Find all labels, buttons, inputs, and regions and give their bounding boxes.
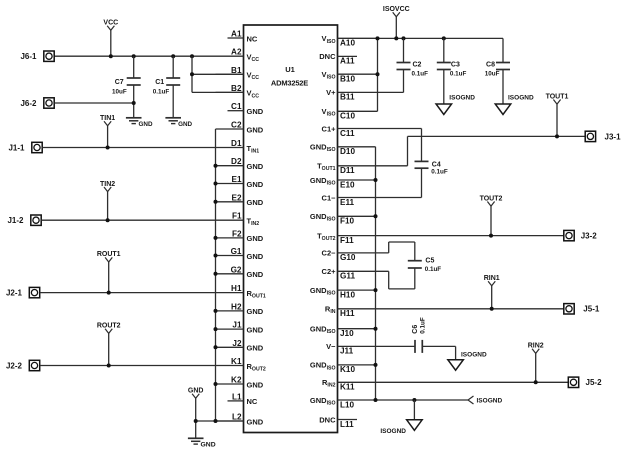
svg-text:J6-2: J6-2 xyxy=(20,99,37,108)
connector pad J5-1 xyxy=(564,304,600,314)
pin D1 (TIN1) left stub + labels xyxy=(231,139,259,154)
wire drop to ISOGND triangle xyxy=(413,400,415,420)
pin A10 (VISO) right stub + labels xyxy=(322,34,378,48)
svg-text:C1−: C1− xyxy=(322,193,337,202)
svg-text:ROUT1: ROUT1 xyxy=(97,251,121,258)
svg-text:A10: A10 xyxy=(340,39,355,48)
svg-text:C10: C10 xyxy=(340,112,355,121)
junction GNDISO bus at row H10 xyxy=(374,288,378,292)
svg-text:J11: J11 xyxy=(340,347,354,356)
pin K10 (GNDISO) right stub + labels xyxy=(310,361,376,375)
ground ISOGND under C6 xyxy=(448,352,487,371)
svg-text:GND: GND xyxy=(247,107,264,116)
junction GNDISO bus at row E10 xyxy=(374,178,378,182)
svg-text:E2: E2 xyxy=(231,193,241,202)
svg-text:H10: H10 xyxy=(340,290,355,299)
node ISOGND off-page connector xyxy=(468,396,502,405)
svg-text:RIN1: RIN1 xyxy=(484,275,500,282)
junction RIN2 at wire xyxy=(534,380,538,384)
svg-text:B1: B1 xyxy=(231,66,242,75)
svg-text:B2: B2 xyxy=(231,84,242,93)
svg-text:V+: V+ xyxy=(326,88,336,97)
svg-text:ISOGND: ISOGND xyxy=(461,352,487,359)
svg-text:ISOGND: ISOGND xyxy=(380,428,406,435)
junction GNDISO bus at row K10 xyxy=(374,363,378,367)
svg-text:GND: GND xyxy=(188,388,204,395)
pin E2 (GND) left stub + labels xyxy=(216,193,264,207)
connector pad J5-2 xyxy=(568,377,602,387)
svg-text:D11: D11 xyxy=(340,166,355,175)
pin C10 (VISO) right stub + labels xyxy=(322,107,378,121)
svg-text:D1: D1 xyxy=(231,139,242,148)
pin D11 (TOUT1) right stub + labels xyxy=(317,162,355,176)
wire VISO vertical A10-B10-C10 xyxy=(377,38,379,111)
pin J11 (V&#8722;) right stub + labels xyxy=(326,342,354,356)
svg-text:C11: C11 xyxy=(340,129,355,138)
ground ISOGND under C8 xyxy=(495,94,534,114)
svg-text:C8: C8 xyxy=(486,62,495,69)
svg-text:E10: E10 xyxy=(340,180,355,189)
wire VCC rail from J6-1 to pin A2 xyxy=(54,55,243,57)
wire V- (J11) to C6 xyxy=(338,345,416,347)
pin F1 (TIN2) left stub + labels xyxy=(232,212,259,227)
svg-text:DNC: DNC xyxy=(319,415,336,424)
svg-text:G1: G1 xyxy=(231,247,242,256)
IC U1 ADM3252E body xyxy=(244,25,338,433)
junction VISO vertical at B10 xyxy=(376,72,380,76)
svg-text:ADM3252E: ADM3252E xyxy=(271,79,308,88)
junction GND bus at row G1 xyxy=(214,254,218,258)
capacitor C8 xyxy=(485,38,510,104)
connector pad J6-1 xyxy=(20,51,54,61)
svg-text:H2: H2 xyxy=(231,302,242,311)
svg-text:0.1uF: 0.1uF xyxy=(431,169,448,176)
svg-text:0.1uF: 0.1uF xyxy=(412,71,429,78)
power flag TOUT1 xyxy=(546,93,569,136)
junction rail at C2 xyxy=(402,36,406,40)
pin H11 (RIN) right stub + labels xyxy=(325,305,355,319)
ground ISOGND under C3 xyxy=(436,94,475,114)
capacitor C1 xyxy=(153,56,180,118)
power flag RIN2 xyxy=(528,343,544,383)
pin H10 (GNDISO) right stub + labels xyxy=(310,286,376,300)
pin L2 (GND) left stub + labels xyxy=(216,413,264,427)
svg-text:GND: GND xyxy=(247,307,264,316)
svg-text:G2: G2 xyxy=(231,265,242,274)
svg-text:A2: A2 xyxy=(231,48,242,57)
svg-text:GND: GND xyxy=(247,325,264,334)
svg-text:NC: NC xyxy=(247,397,258,406)
pin J10 (GNDISO) right stub + labels xyxy=(310,325,376,339)
wire C2 bottom to pin B11 (V+) xyxy=(338,91,404,93)
svg-text:DNC: DNC xyxy=(319,52,336,61)
svg-text:J5-1: J5-1 xyxy=(583,305,600,314)
wire J2-2 to chip xyxy=(40,365,244,367)
pin D2 (GND) left stub + labels xyxy=(216,157,264,171)
junction GND bus at row K2 xyxy=(214,382,218,386)
svg-text:0.1uF: 0.1uF xyxy=(153,89,170,96)
svg-text:J10: J10 xyxy=(340,329,354,338)
svg-text:J1-1: J1-1 xyxy=(8,144,25,153)
svg-text:GND: GND xyxy=(247,234,264,243)
svg-text:G11: G11 xyxy=(340,272,355,281)
svg-text:C2: C2 xyxy=(231,121,242,130)
pin J2 (GND) left stub + labels xyxy=(216,339,264,353)
svg-text:D10: D10 xyxy=(340,147,355,156)
svg-text:C1: C1 xyxy=(231,102,242,111)
junction ROUT1 at wire xyxy=(107,291,111,295)
power flag TIN2 xyxy=(100,181,115,220)
junction GND bus at row D2 xyxy=(214,164,218,168)
svg-text:C2: C2 xyxy=(413,62,422,69)
junction L10 row at triangle drop xyxy=(412,398,416,402)
pin G2 (GND) left stub + labels xyxy=(216,265,264,279)
svg-text:TIN2: TIN2 xyxy=(100,181,115,188)
ground GND earth symbol bottom xyxy=(188,438,216,448)
junction TOUT1 at wire xyxy=(555,134,559,138)
svg-text:0.1uF: 0.1uF xyxy=(450,71,467,78)
wire C1+ (C11) to C4 top xyxy=(338,129,422,162)
junction GND bus at row E1 xyxy=(214,182,218,186)
connector pad J1-1 xyxy=(8,142,42,152)
connector pad J1-2 xyxy=(7,215,41,225)
svg-text:J3-1: J3-1 xyxy=(605,132,622,141)
junction RIN1 at wire xyxy=(490,307,494,311)
power flag VCC xyxy=(103,20,118,57)
pin F11 (TOUT2) right stub + labels xyxy=(317,231,354,245)
junction GND bus at row H2 xyxy=(214,309,218,313)
junction GND bus at row E2 xyxy=(214,200,218,204)
svg-text:C1: C1 xyxy=(155,79,164,86)
svg-text:J3-2: J3-2 xyxy=(581,232,598,241)
svg-text:L2: L2 xyxy=(232,413,242,422)
svg-text:V−: V− xyxy=(326,342,336,351)
ground ISOGND bottom triangle xyxy=(380,420,422,435)
junction rail at ISOVCC flag xyxy=(394,36,398,40)
junction ROUT2 at wire xyxy=(107,364,111,368)
svg-text:J2-2: J2-2 xyxy=(6,362,23,371)
junction GND bus at row J1 xyxy=(214,327,218,331)
wire GNDISO bus (right side) xyxy=(375,147,377,400)
capacitor C4 xyxy=(415,161,448,175)
junction TIN2 at wire xyxy=(106,218,110,222)
pin J1 (GND) left stub + labels xyxy=(216,321,264,335)
power flag ISOVCC xyxy=(383,6,410,38)
svg-text:GND: GND xyxy=(247,125,264,134)
pin A2 (VCC) left stub + labels xyxy=(231,48,259,63)
junction rail at VISO vertical xyxy=(376,36,380,40)
svg-text:C1+: C1+ xyxy=(322,124,337,133)
wire TOUT1 (D11) to J3-1 xyxy=(338,136,586,165)
svg-text:K2: K2 xyxy=(231,376,242,385)
svg-text:A11: A11 xyxy=(340,57,355,66)
wire J2-1 to chip xyxy=(40,292,244,294)
ground GND under C7 xyxy=(126,118,153,128)
svg-text:ISOVCC: ISOVCC xyxy=(383,6,410,13)
svg-text:GND: GND xyxy=(247,252,264,261)
svg-text:RIN2: RIN2 xyxy=(528,343,544,350)
svg-text:K11: K11 xyxy=(340,383,355,392)
svg-text:GND: GND xyxy=(178,121,192,128)
capacitor C7 xyxy=(112,56,141,118)
junction VCC rail at C1 xyxy=(171,54,175,58)
connector pad J6-2 xyxy=(20,98,54,108)
junction GND bus at row J2 xyxy=(214,345,218,349)
svg-text:E11: E11 xyxy=(340,198,355,207)
svg-text:K10: K10 xyxy=(340,365,355,374)
svg-text:NC: NC xyxy=(247,34,258,43)
power flag GND (bottom left) xyxy=(188,388,204,439)
svg-text:E1: E1 xyxy=(231,175,241,184)
svg-text:ISOGND: ISOGND xyxy=(449,94,475,101)
pin A11 (DNC) right stub + labels xyxy=(319,52,357,65)
svg-text:GND: GND xyxy=(139,121,153,128)
capacitor C2 xyxy=(397,38,429,92)
svg-text:G10: G10 xyxy=(340,253,356,262)
wire J1-1 to chip xyxy=(42,147,243,149)
wire J6-2 to C7 ground lead xyxy=(54,102,134,104)
svg-text:C6: C6 xyxy=(412,325,419,334)
svg-text:TOUT1: TOUT1 xyxy=(546,93,569,100)
connector pad J2-1 xyxy=(6,287,40,297)
svg-text:B11: B11 xyxy=(340,93,355,102)
svg-text:C2−: C2− xyxy=(322,249,337,258)
pin G1 (GND) left stub + labels xyxy=(216,247,264,261)
capacitor C6 xyxy=(412,317,427,353)
pin H2 (GND) left stub + labels xyxy=(216,302,264,316)
pin D10 (GNDISO) right stub + labels xyxy=(310,143,376,157)
wire TOUT2 (F11) to J3-2 xyxy=(338,235,565,237)
pin B10 (VISO) right stub + labels xyxy=(322,70,378,84)
pin C11 (C1+) right stub + labels xyxy=(322,124,355,138)
pin L1 (NC) left stub + labels xyxy=(228,392,258,406)
junction J6-2 wire at C7 lead xyxy=(132,101,136,105)
svg-text:J2: J2 xyxy=(232,339,242,348)
svg-text:L10: L10 xyxy=(340,400,355,409)
junction rail at C3 xyxy=(442,36,446,40)
pin L11 (DNC) right stub + labels xyxy=(319,415,357,429)
connector pad J3-1 xyxy=(585,131,621,141)
svg-text:J2-1: J2-1 xyxy=(6,289,23,298)
svg-text:J6-1: J6-1 xyxy=(20,52,37,61)
svg-text:ISOGND: ISOGND xyxy=(508,94,534,101)
svg-text:K1: K1 xyxy=(231,357,242,366)
power flag RIN1 xyxy=(484,275,500,309)
pin L10 (GNDISO) right stub + labels xyxy=(310,396,355,410)
power flag ROUT1 xyxy=(97,251,121,292)
pin C1 (GND) left stub + labels xyxy=(228,102,264,116)
wire VCC branch to pins B1 and B2 xyxy=(192,56,244,92)
wire RIN (H11) to J5-1 xyxy=(338,308,565,310)
power flag TIN1 xyxy=(100,115,115,148)
svg-text:C3: C3 xyxy=(451,62,460,69)
svg-text:C4: C4 xyxy=(432,161,441,168)
power flag ROUT2 xyxy=(97,323,121,366)
svg-text:GND: GND xyxy=(247,270,264,279)
pin E1 (GND) left stub + labels xyxy=(216,175,264,189)
svg-text:VCC: VCC xyxy=(103,20,118,27)
svg-text:B10: B10 xyxy=(340,75,355,84)
svg-text:U1: U1 xyxy=(285,65,295,74)
pin B1 (VCC) left stub + labels xyxy=(216,66,260,81)
wire L2 row to GND xyxy=(196,420,244,422)
pin F2 (GND) left stub + labels xyxy=(216,229,264,243)
svg-text:GND: GND xyxy=(247,162,264,171)
connector pad J2-2 xyxy=(6,360,40,370)
wire J1-2 to chip xyxy=(41,219,243,221)
svg-text:C2+: C2+ xyxy=(322,267,337,276)
pin B11 (V+) right stub + labels xyxy=(326,88,355,102)
svg-text:GND: GND xyxy=(247,344,264,353)
svg-text:GND: GND xyxy=(247,417,264,426)
wire C4 bottom to C1- (E11) xyxy=(338,168,422,197)
pin H1 (ROUT1) left stub + labels xyxy=(231,284,266,299)
svg-text:GND: GND xyxy=(247,380,264,389)
svg-text:0.1uF: 0.1uF xyxy=(425,266,442,273)
pin G10 (C2&#8722;) right stub + labels xyxy=(322,249,356,263)
svg-text:C5: C5 xyxy=(425,257,434,264)
wire ISOVCC rail from pin A10 to C8 xyxy=(338,37,504,39)
svg-text:J1: J1 xyxy=(232,321,242,330)
svg-text:10uF: 10uF xyxy=(485,71,500,78)
svg-text:H1: H1 xyxy=(231,284,242,293)
svg-text:J5-2: J5-2 xyxy=(586,378,603,387)
svg-text:F1: F1 xyxy=(232,212,242,221)
svg-text:GND: GND xyxy=(247,180,264,189)
capacitor C5 xyxy=(408,257,441,273)
connector pad J3-2 xyxy=(564,230,597,240)
pin A1 (NC) left stub + labels xyxy=(228,30,258,44)
junction GND bus at row F2 xyxy=(214,236,218,240)
svg-text:F11: F11 xyxy=(340,236,354,245)
svg-text:GND: GND xyxy=(247,198,264,207)
svg-text:A1: A1 xyxy=(231,30,242,39)
junction GND bus bottom at L2 row xyxy=(214,419,218,423)
wire GND bus (left side) xyxy=(215,129,217,421)
junction VCC rail at C7 xyxy=(132,54,136,58)
svg-text:ROUT2: ROUT2 xyxy=(97,323,121,330)
svg-text:J1-2: J1-2 xyxy=(7,216,24,225)
wire C2+ (G11) to C5 bottom xyxy=(338,268,415,289)
svg-text:C7: C7 xyxy=(115,79,124,86)
junction VCC rail at VCC flag xyxy=(109,54,113,58)
svg-text:GND: GND xyxy=(201,442,216,449)
pin K1 (ROUT2) left stub + labels xyxy=(231,357,266,372)
svg-text:ISOGND: ISOGND xyxy=(477,398,503,405)
svg-text:H11: H11 xyxy=(340,309,355,318)
wire RIN2 (K11) to J5-2 xyxy=(338,381,569,383)
wire C2- (G10) to C5 top xyxy=(338,242,415,261)
pin K2 (GND) left stub + labels xyxy=(216,376,264,390)
svg-text:L1: L1 xyxy=(232,392,242,401)
junction VCC rail at B1/B2 branch xyxy=(190,54,194,58)
svg-text:TOUT2: TOUT2 xyxy=(480,195,503,202)
wire C6 right plate to ISOGND xyxy=(422,346,455,359)
svg-text:F2: F2 xyxy=(232,229,242,238)
junction GNDISO bus at row F10 xyxy=(374,214,378,218)
svg-text:0.1uF: 0.1uF xyxy=(419,317,426,334)
junction TOUT2 at wire xyxy=(489,234,493,238)
junction GND bus at row G2 xyxy=(214,272,218,276)
pin F10 (GNDISO) right stub + labels xyxy=(310,212,376,226)
junction GND drop at L2 row xyxy=(194,419,198,423)
capacitor C3 xyxy=(437,38,467,104)
pin C2 (GND) left stub + labels xyxy=(216,121,264,135)
pin E10 (GNDISO) right stub + labels xyxy=(310,176,376,190)
junction GNDISO bus at row J10 xyxy=(374,327,378,331)
svg-text:L11: L11 xyxy=(340,420,354,429)
svg-text:10uF: 10uF xyxy=(112,89,127,96)
power flag TOUT2 xyxy=(480,195,503,235)
pin B2 (VCC) left stub + labels xyxy=(216,84,260,99)
pin G11 (C2+) right stub + labels xyxy=(322,267,356,281)
svg-text:TIN1: TIN1 xyxy=(100,115,115,122)
pin E11 (C1&#8722;) right stub + labels xyxy=(322,193,355,207)
junction VCC branch at B1 xyxy=(190,72,194,76)
junction TIN1 at wire xyxy=(106,146,110,150)
wire GNDISO (L10) row xyxy=(338,399,469,401)
svg-text:D2: D2 xyxy=(231,157,242,166)
pin K11 (RIN2) right stub + labels xyxy=(322,378,355,392)
svg-text:F10: F10 xyxy=(340,217,355,226)
ground GND under C1 xyxy=(165,118,192,128)
junction L10 row at GNDISO bus xyxy=(374,398,378,402)
